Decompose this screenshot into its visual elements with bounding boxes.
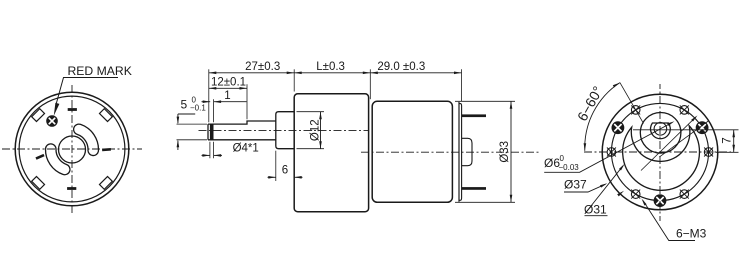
leader Ø6 bbox=[544, 124, 670, 173]
dimension 6: extension line bbox=[275, 151, 277, 181]
left view: center boss circle bbox=[59, 136, 86, 163]
svg-text:−0.1: −0.1 bbox=[190, 104, 206, 113]
right view: M3 hole at 120 deg bbox=[631, 105, 640, 114]
left view: tick mark bottom bbox=[67, 187, 76, 190]
right view: horizontal centerline bbox=[584, 151, 731, 153]
side view: terminal lower bbox=[462, 187, 486, 190]
right view: bolt circle bbox=[611, 103, 708, 200]
extension line at motor rear bbox=[461, 69, 463, 101]
right view: assembly screw at 30 deg bbox=[696, 122, 708, 134]
left view: horizontal centerline bbox=[2, 148, 142, 150]
side view: shaft centerline bbox=[199, 129, 369, 131]
side view: shaft ring groove bbox=[210, 124, 214, 139]
dimension Ø12: line and arrows bbox=[320, 112, 322, 149]
left view: rim pad lower-right bbox=[99, 176, 112, 189]
left view: motor body circle bbox=[19, 96, 125, 202]
left view: vent slot upper-right bbox=[74, 124, 99, 155]
right view: M3 hole at 240 deg bbox=[631, 190, 640, 199]
left view: tick mark left bbox=[35, 154, 44, 160]
extension line at gearbox front bbox=[293, 69, 295, 91]
svg-text:RED MARK: RED MARK bbox=[68, 64, 132, 78]
svg-text:Ø12: Ø12 bbox=[309, 119, 321, 141]
right view: M3 hole at 300 deg bbox=[680, 190, 689, 199]
svg-text:1: 1 bbox=[224, 90, 230, 102]
dimension 5: leader and arrows bbox=[178, 113, 195, 115]
dimension Ø12: extension lines bbox=[297, 111, 325, 113]
left view: rim pad upper-left bbox=[32, 109, 45, 122]
left view: rim pad lower-left bbox=[32, 176, 45, 189]
svg-text:Ø31: Ø31 bbox=[584, 203, 607, 217]
side view: motor body bbox=[372, 101, 452, 202]
svg-text:12±0.1: 12±0.1 bbox=[211, 76, 246, 88]
left view: rim pad upper-right bbox=[99, 109, 112, 122]
svg-text:−0.03: −0.03 bbox=[559, 163, 580, 172]
svg-text:Ø4*1: Ø4*1 bbox=[233, 142, 259, 154]
right view: M3 hole at 180 deg bbox=[607, 148, 616, 157]
extension line at shaft tip bbox=[208, 69, 210, 122]
side view: output shaft outline bbox=[208, 121, 276, 140]
left view: vent slot lower-left bbox=[45, 144, 69, 175]
dimension 6-60: radial extension at 120deg bbox=[620, 83, 644, 124]
side view: motor endcap ring bbox=[458, 102, 460, 202]
side view: gearbox body bbox=[294, 94, 368, 212]
side view: rear bearing bump bbox=[462, 138, 472, 165]
dimension 6-60: arrows bbox=[613, 83, 620, 88]
left view: tick mark top bbox=[68, 108, 77, 111]
red mark leader line bbox=[56, 78, 118, 104]
dimension Ø33: line and arrows bbox=[510, 101, 512, 202]
svg-text:L±0.3: L±0.3 bbox=[316, 61, 345, 73]
right view: diagonal line to bolt circle upper right bbox=[641, 117, 696, 171]
svg-text:6−M3: 6−M3 bbox=[676, 227, 707, 241]
right view: gearbox outer circle bbox=[602, 94, 718, 210]
dimension Ø4*1: arrows and tails bbox=[202, 154, 210, 156]
dimension 12±0.1: extension line bbox=[246, 84, 248, 119]
leader Ø37 bbox=[564, 184, 606, 192]
svg-text:27±0.3: 27±0.3 bbox=[245, 61, 280, 73]
dimension Ø33: extension lines bbox=[455, 100, 515, 102]
side view: terminal upper bbox=[462, 114, 486, 117]
right view: shaft horizontal centerline bbox=[633, 129, 739, 131]
dimension arrows top row bbox=[209, 72, 217, 75]
left view: vertical centerline bbox=[71, 85, 73, 214]
right view: boss circle bbox=[640, 113, 681, 154]
right view: assembly screw at 270 deg bbox=[654, 195, 666, 207]
dimension 12±0.1: line and arrows bbox=[209, 87, 247, 89]
dimension 6-60: arc bbox=[585, 83, 620, 151]
right view: M3 hole at 0 deg bbox=[704, 148, 713, 157]
extension line at gearbox/motor joint bbox=[369, 69, 371, 99]
svg-text:5: 5 bbox=[181, 98, 188, 112]
dimension 7: extension line lower bbox=[716, 151, 739, 153]
dimension 7: line and arrows bbox=[733, 130, 735, 153]
leader 6-M3 bbox=[643, 201, 695, 241]
right view: vertical centerline bbox=[659, 84, 661, 221]
side view: motor centerline bbox=[361, 151, 540, 153]
right view: shaft groove circle bbox=[654, 123, 667, 136]
svg-text:0: 0 bbox=[560, 154, 565, 163]
dimension 1: arrows and tails bbox=[202, 101, 211, 103]
svg-text:29.0 ±0.3: 29.0 ±0.3 bbox=[377, 61, 425, 73]
side view: boss bbox=[276, 112, 294, 149]
right view: output shaft circle with flat bbox=[651, 123, 671, 139]
right view: assembly screw at 150 deg bbox=[612, 122, 624, 134]
red mark leader arrow bbox=[54, 103, 60, 116]
dimension 5: extension lines bbox=[177, 123, 208, 125]
right view: screw radial line 30deg bbox=[659, 121, 708, 157]
dimension line 27 / L / 29 row bbox=[209, 72, 462, 74]
right view: crescent cavity bbox=[623, 126, 700, 191]
dimension 1: extension line bbox=[213, 99, 215, 122]
svg-text:6: 6 bbox=[282, 164, 288, 176]
svg-text:7: 7 bbox=[721, 137, 733, 143]
dimension Ø4*1: extension lines bbox=[209, 142, 211, 159]
left view: red-mark screw symbol bbox=[47, 116, 57, 126]
leader Ø31 bbox=[585, 215, 608, 217]
side view: endcap face bbox=[459, 104, 462, 201]
dimension 6: arrows and tails bbox=[268, 176, 276, 178]
svg-text:Ø37: Ø37 bbox=[564, 178, 587, 192]
svg-text:Ø33: Ø33 bbox=[499, 141, 511, 163]
left view: tick mark right bbox=[102, 148, 111, 151]
right view: M3 hole at 60 deg bbox=[680, 105, 689, 114]
left view: outer flange circle bbox=[15, 92, 129, 206]
